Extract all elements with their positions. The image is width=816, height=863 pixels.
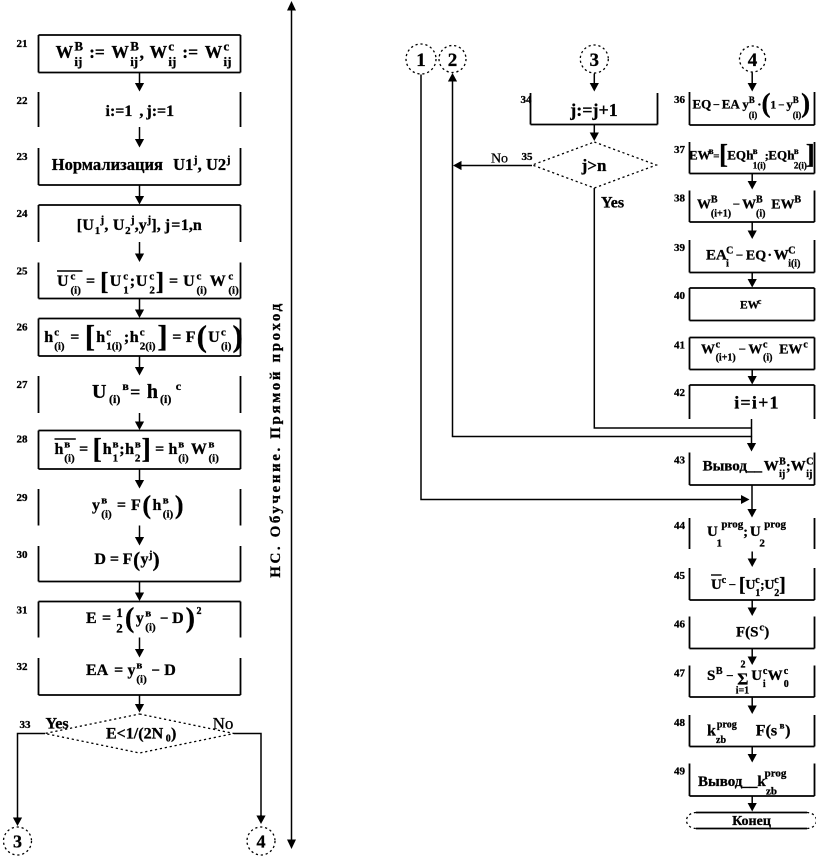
svg-text:EW: EW: [771, 198, 794, 213]
arrow 41-42: [748, 370, 757, 385]
arrow 44-45: [748, 552, 757, 568]
svg-text:(i): (i): [145, 622, 156, 634]
svg-text:B: B: [711, 195, 718, 206]
svg-text:y: y: [92, 497, 100, 514]
svg-text:c: c: [123, 271, 128, 283]
svg-text:Конец: Конец: [732, 814, 771, 829]
svg-text:i=1: i=1: [736, 686, 749, 697]
svg-text:prog: prog: [721, 519, 743, 531]
svg-text:1: 1: [717, 538, 723, 550]
process box 21: [39, 35, 241, 73]
svg-text:U: U: [745, 578, 755, 593]
process box 48: [690, 715, 815, 747]
svg-text:h: h: [125, 441, 134, 458]
svg-text:U: U: [764, 578, 774, 593]
svg-text:(: (: [762, 88, 771, 118]
svg-text:U1: U1: [173, 155, 193, 174]
connector circle 1: [406, 44, 436, 74]
wire arrow down left column: [135, 582, 144, 602]
svg-text:F: F: [186, 329, 196, 346]
svg-text:4: 4: [748, 50, 758, 71]
process box 49: [690, 764, 815, 797]
wire from circle 1 to box 44 entry: [421, 75, 741, 500]
svg-text:1: 1: [416, 50, 426, 71]
svg-text:zb: zb: [716, 735, 726, 746]
svg-text:): ): [175, 491, 184, 520]
wire arrow down left column: [135, 695, 144, 713]
arrow 38-39: [748, 222, 757, 239]
arrow 45-46: [748, 600, 757, 616]
svg-text:c: c: [197, 271, 202, 283]
svg-text:j:=1: j:=1: [145, 103, 174, 120]
svg-text::=: :=: [182, 42, 198, 62]
wire arrow down left column: [135, 299, 144, 319]
box 27 formula: [92, 379, 182, 406]
box 24 text: [77, 214, 202, 237]
svg-text:h: h: [96, 329, 105, 346]
process box 31: [39, 602, 241, 638]
box 48 formula: [707, 720, 790, 740]
svg-text:=: =: [155, 441, 164, 458]
svg-text:B: B: [756, 195, 763, 206]
svg-text:=: =: [114, 662, 123, 679]
svg-text:W: W: [768, 668, 783, 684]
arrow box34 to diamond 35: [590, 125, 599, 142]
svg-text:в: в: [178, 439, 184, 451]
process box 24: [39, 205, 241, 242]
svg-text:B: B: [716, 666, 723, 677]
svg-text:;: ;: [124, 329, 129, 346]
process box 37: [690, 142, 815, 174]
svg-text:ij: ij: [779, 469, 785, 480]
svg-text:zb: zb: [766, 786, 777, 798]
wire arrow down left column: [135, 526, 144, 546]
process box 27: [39, 376, 241, 413]
svg-text:23: 23: [17, 151, 29, 163]
svg-text:46: 46: [674, 619, 686, 631]
svg-text:в: в: [163, 495, 169, 507]
svg-text:в: в: [753, 146, 758, 156]
svg-text:(i): (i): [163, 509, 174, 521]
svg-text:U: U: [183, 273, 195, 290]
svg-text:): ): [171, 726, 176, 743]
svg-text:37: 37: [674, 144, 686, 156]
svg-text:B: B: [74, 39, 83, 54]
svg-text:33: 33: [20, 719, 32, 731]
svg-text:(i): (i): [101, 509, 112, 521]
svg-text:c: c: [149, 271, 154, 283]
svg-text:prog: prog: [765, 768, 787, 780]
svg-text:=: =: [70, 329, 79, 346]
svg-text:[: [: [93, 434, 102, 465]
svg-text:(i): (i): [109, 392, 120, 406]
svg-text:]: ]: [156, 269, 164, 296]
wire to connector 3: [18, 734, 46, 819]
svg-text:2: 2: [149, 285, 155, 297]
svg-text:31: 31: [17, 605, 28, 617]
svg-text:c: c: [54, 327, 59, 339]
svg-text:=: =: [171, 217, 180, 234]
decision diamond 35: [532, 142, 656, 188]
svg-text:·: ·: [767, 249, 772, 264]
box 30 formula: [94, 548, 159, 572]
wire up into circle 2: [448, 73, 457, 437]
svg-text:E: E: [86, 610, 97, 627]
connector circle 4 top: [740, 46, 766, 72]
wire arrow down left column: [135, 413, 144, 430]
svg-text:(i): (i): [749, 110, 758, 120]
svg-text:ij: ij: [130, 54, 138, 69]
connector circle 3 bottom: [4, 827, 32, 855]
svg-text:D: D: [94, 551, 106, 568]
svg-text:;: ;: [743, 525, 748, 540]
svg-text:W: W: [748, 343, 762, 358]
svg-text:−: −: [739, 342, 746, 357]
svg-text:Нормализация: Нормализация: [52, 155, 163, 174]
svg-text:(i): (i): [178, 453, 189, 465]
svg-text:27: 27: [17, 379, 29, 391]
svg-text:U: U: [751, 668, 762, 684]
svg-text:ij: ij: [806, 469, 812, 480]
svg-text:(i): (i): [209, 453, 220, 465]
svg-text:h: h: [169, 441, 178, 458]
svg-text:h: h: [55, 441, 64, 458]
svg-text:47: 47: [674, 668, 686, 680]
svg-text:,: ,: [198, 155, 202, 174]
svg-text:): ): [764, 625, 769, 641]
box 38 formula: [697, 195, 801, 220]
svg-text:1(i): 1(i): [106, 341, 122, 353]
svg-text:=: =: [102, 610, 111, 627]
svg-text:(: (: [142, 491, 151, 520]
svg-text:[: [: [77, 217, 82, 234]
box 29 formula: [92, 491, 184, 521]
process box 40: [690, 288, 815, 321]
svg-text:i: i: [763, 679, 766, 690]
double-headed vertical arrow: [291, 8, 293, 842]
svg-text:i: i: [726, 259, 729, 270]
wire box42 to box43 junction: [751, 419, 753, 444]
svg-text:2(i): 2(i): [140, 341, 156, 353]
svg-text:(i): (i): [136, 674, 147, 686]
svg-text:c: c: [168, 39, 174, 54]
svg-text:B: B: [749, 95, 755, 105]
svg-text:c: c: [803, 340, 808, 351]
svg-text:W: W: [774, 248, 789, 264]
wire arrow down left column: [135, 638, 144, 658]
svg-text:W: W: [191, 441, 207, 458]
svg-text:E<1/(2N: E<1/(2N: [106, 726, 164, 743]
svg-text:S: S: [707, 668, 715, 684]
svg-text:D: D: [172, 610, 184, 627]
box 45 formula: [711, 574, 786, 599]
svg-text:U: U: [92, 381, 106, 403]
process box 36: [690, 92, 815, 125]
svg-text:i:=1: i:=1: [106, 103, 133, 120]
svg-text:h: h: [103, 441, 112, 458]
box 28 formula: [55, 434, 220, 465]
svg-text:48: 48: [674, 717, 686, 729]
wire to connector 4: [234, 734, 261, 817]
box 49 text: [698, 768, 787, 791]
svg-text:W: W: [56, 42, 74, 62]
svg-text:3: 3: [590, 50, 600, 71]
wire arrow down left column: [135, 242, 144, 262]
svg-text:], j: ], j: [151, 217, 170, 234]
svg-text:2: 2: [116, 621, 123, 636]
svg-text:(i+1): (i+1): [716, 353, 736, 364]
svg-text:30: 30: [17, 549, 29, 561]
svg-text:EQ: EQ: [727, 148, 746, 163]
svg-text:(i): (i): [71, 285, 82, 297]
arrow 47-48: [748, 697, 757, 714]
svg-text:h: h: [130, 329, 139, 346]
svg-text:−: −: [733, 197, 740, 212]
svg-text:U: U: [110, 273, 122, 290]
svg-text:(i): (i): [763, 353, 772, 364]
svg-text:]: ]: [157, 319, 167, 354]
box 41 formula: [701, 340, 808, 364]
svg-text:U: U: [711, 577, 722, 593]
svg-text:2: 2: [448, 50, 458, 71]
svg-text:=: =: [172, 329, 181, 346]
svg-text:]: ]: [806, 139, 815, 169]
process box 32: [39, 658, 241, 695]
svg-text:−: −: [729, 577, 736, 592]
process box 43: [690, 453, 815, 486]
svg-text:c: c: [784, 666, 789, 677]
svg-text:U: U: [57, 273, 69, 290]
svg-text:B: B: [130, 39, 139, 54]
arrow circle 3 top into box 34: [590, 74, 599, 92]
svg-text:y: y: [141, 551, 149, 568]
svg-text:y: y: [128, 662, 136, 679]
svg-text:y: y: [136, 610, 144, 627]
svg-text:−: −: [736, 248, 743, 263]
svg-text:W: W: [697, 198, 711, 213]
svg-text:,: ,: [140, 42, 144, 62]
svg-text:U2: U2: [206, 155, 226, 174]
svg-text:38: 38: [674, 193, 686, 205]
svg-text:1: 1: [95, 225, 101, 237]
svg-text:−: −: [160, 611, 169, 627]
svg-text:49: 49: [674, 766, 686, 778]
svg-text:в: в: [145, 608, 151, 620]
svg-text:c: c: [716, 340, 721, 351]
svg-text:No: No: [491, 152, 508, 167]
svg-text:35: 35: [522, 151, 534, 163]
process box 47: [690, 666, 815, 698]
Yes wire down and right: [594, 188, 751, 428]
svg-text:U: U: [136, 273, 148, 290]
wire box43 to box44: [751, 485, 753, 510]
svg-text:в: в: [113, 439, 119, 451]
process box 34: [531, 93, 658, 125]
svg-text:2: 2: [759, 538, 765, 550]
svg-text:W: W: [791, 459, 806, 475]
svg-text:k: k: [707, 723, 716, 740]
svg-text:(: (: [197, 319, 207, 354]
svg-text:EQ: EQ: [746, 249, 766, 264]
process box 44: [690, 518, 815, 549]
box 37 formula: [689, 139, 815, 171]
svg-text:в: в: [136, 660, 142, 672]
svg-text:): ): [785, 723, 790, 740]
svg-text:[: [: [100, 269, 108, 296]
svg-text:2: 2: [197, 606, 202, 617]
box 46 formula: [736, 623, 769, 641]
box 40 formula: [740, 297, 762, 312]
svg-text:36: 36: [674, 94, 686, 106]
svg-text:в: в: [101, 495, 107, 507]
svg-text:j: j: [226, 154, 231, 166]
svg-text:EW: EW: [779, 343, 802, 358]
svg-text:(i): (i): [160, 392, 171, 406]
svg-text:prog: prog: [717, 720, 737, 731]
svg-text:(i): (i): [228, 285, 239, 297]
process box 26: [39, 319, 241, 357]
svg-text:): ): [233, 319, 243, 354]
svg-text:45: 45: [674, 570, 686, 582]
box 44 text: [707, 519, 787, 550]
svg-text:No: No: [213, 714, 234, 733]
svg-text:43: 43: [674, 455, 686, 467]
svg-text:1: 1: [770, 98, 776, 112]
svg-text:3: 3: [13, 832, 22, 852]
svg-text:=: =: [117, 497, 126, 514]
arrow 49-end: [748, 796, 757, 812]
box 47 formula: [707, 660, 789, 697]
svg-text:Вывод__k: Вывод__k: [698, 774, 766, 790]
svg-text:Yes: Yes: [45, 716, 68, 733]
svg-text:j>n: j>n: [581, 156, 607, 175]
wire arrow down left column: [135, 185, 144, 205]
svg-text:EQ: EQ: [693, 97, 712, 112]
svg-text:ij: ij: [168, 54, 176, 69]
svg-text:C: C: [788, 246, 795, 257]
svg-text:B: B: [794, 195, 801, 206]
arrow 39-40: [748, 273, 757, 288]
svg-text:(i): (i): [64, 453, 75, 465]
svg-text:c: c: [224, 39, 230, 54]
svg-text:2: 2: [135, 453, 141, 465]
process box 22: [39, 92, 241, 127]
svg-text:]: ]: [779, 574, 786, 596]
process box 45: [690, 568, 815, 600]
svg-text:): ): [186, 603, 195, 634]
svg-text:[: [: [85, 319, 95, 354]
decision diamond 33: [45, 714, 234, 753]
connector circle 4 bottom: [247, 827, 275, 855]
svg-text:1: 1: [116, 605, 123, 620]
svg-text:,y: ,y: [135, 217, 147, 234]
svg-text:U: U: [208, 329, 220, 346]
wire arrow down left column: [135, 73, 144, 92]
svg-text:1,n: 1,n: [181, 217, 202, 234]
svg-text:(i): (i): [793, 110, 802, 120]
svg-text:32: 32: [17, 661, 29, 673]
svg-text:W: W: [205, 42, 223, 62]
svg-text:c: c: [722, 575, 727, 586]
svg-text:1: 1: [113, 453, 119, 465]
wire circle2-line right to junction: [452, 436, 752, 438]
svg-text:(: (: [133, 548, 140, 572]
process box 30: [39, 546, 241, 582]
svg-text:c: c: [106, 327, 111, 339]
svg-text:c: c: [758, 297, 762, 306]
box 36 formula: [693, 88, 811, 120]
svg-text:(i): (i): [221, 341, 232, 353]
svg-text:F: F: [131, 497, 141, 514]
wire arrow down left column: [135, 127, 144, 148]
svg-text:c: c: [221, 327, 226, 339]
svg-text:(: (: [125, 603, 134, 634]
box 43 text: [703, 457, 814, 481]
svg-text:,: ,: [139, 103, 143, 120]
svg-text:h: h: [44, 329, 53, 346]
box 31 formula: [86, 603, 202, 636]
svg-text:2: 2: [125, 225, 131, 237]
svg-text:EA: EA: [722, 97, 741, 112]
svg-text:=: =: [130, 382, 140, 402]
svg-text:EA: EA: [706, 248, 727, 264]
svg-text:EQ: EQ: [768, 148, 787, 163]
svg-text:B: B: [793, 95, 799, 105]
process box 23: [39, 148, 241, 185]
No wire with left arrow: [453, 161, 532, 170]
box 32 formula: [86, 660, 176, 686]
svg-text:j:=j+1: j:=j+1: [569, 100, 618, 120]
svg-text:Yes: Yes: [601, 195, 624, 212]
arrow 4top to box36: [748, 73, 757, 92]
svg-text:39: 39: [674, 242, 686, 254]
svg-text:40: 40: [674, 290, 686, 302]
box 23 text: [52, 154, 231, 174]
wire arrow down left column: [135, 469, 144, 489]
svg-text:44: 44: [674, 520, 686, 532]
svg-text:;: ;: [119, 441, 124, 458]
svg-text:(i): (i): [197, 285, 208, 297]
svg-text:=: =: [79, 441, 88, 458]
svg-text:29: 29: [17, 492, 29, 504]
svg-text:4: 4: [257, 832, 266, 852]
arrow 48-49: [748, 747, 757, 763]
svg-text:(i): (i): [54, 341, 65, 353]
wire arrow down left column: [135, 356, 144, 376]
svg-text:41: 41: [674, 340, 685, 352]
diamond 33 condition text: [106, 726, 176, 745]
svg-text:c: c: [176, 379, 182, 393]
svg-text:): ): [153, 548, 160, 572]
connector circle 3 top: [580, 45, 608, 73]
svg-text:U: U: [113, 217, 125, 234]
svg-text:F: F: [123, 551, 133, 568]
svg-text:i(i): i(i): [788, 259, 800, 270]
svg-text:42: 42: [674, 387, 686, 399]
svg-text:в: в: [135, 439, 141, 451]
process box 41: [690, 338, 815, 370]
svg-text:W: W: [742, 198, 756, 213]
svg-text:C: C: [806, 457, 813, 468]
svg-text:ij: ij: [74, 54, 82, 69]
svg-text:W: W: [701, 343, 715, 358]
arrow 46-47: [748, 649, 757, 666]
svg-text:в: в: [64, 439, 70, 451]
svg-text:i=i+1: i=i+1: [734, 393, 780, 413]
svg-text:21: 21: [17, 38, 28, 50]
svg-text:−: −: [713, 98, 720, 112]
svg-text:c: c: [228, 271, 233, 283]
